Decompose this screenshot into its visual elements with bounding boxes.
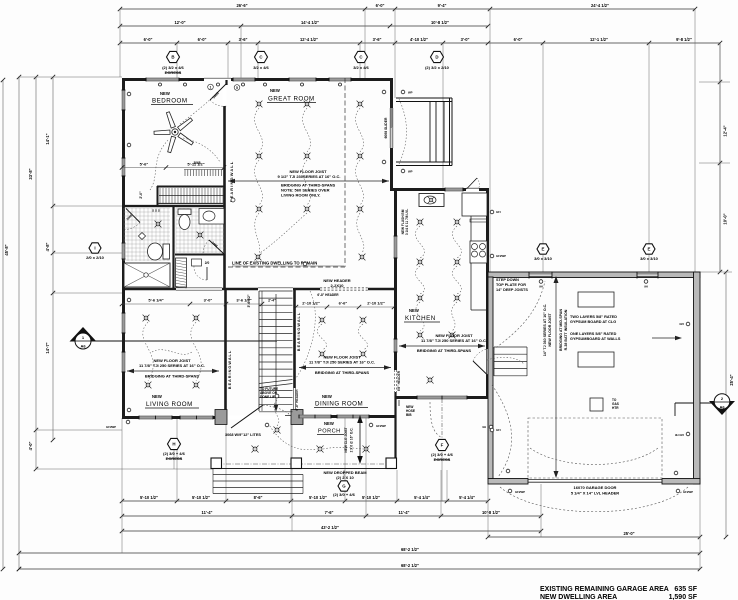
svg-text:2 X 6 @ 16" O.C.: 2 X 6 @ 16" O.C. [350, 427, 354, 452]
svg-text:ONE LAYERS 5/8" RATED: ONE LAYERS 5/8" RATED [570, 332, 617, 336]
svg-text:5'-10 1/2": 5'-10 1/2" [309, 495, 327, 500]
svg-text:6'-0": 6'-0" [376, 3, 385, 8]
svg-text:GFI: GFI [679, 322, 684, 326]
svg-text:GFI/WP: GFI/WP [376, 424, 386, 428]
svg-text:9'-4": 9'-4" [438, 3, 447, 8]
svg-text:DINING ROOM: DINING ROOM [315, 401, 363, 408]
svg-text:6'-8" HEADER: 6'-8" HEADER [295, 389, 299, 411]
svg-text:5'-6": 5'-6" [140, 162, 149, 167]
svg-text:GFI/WP: GFI/WP [683, 490, 693, 494]
svg-text:8'-6": 8'-6" [254, 495, 263, 500]
svg-text:NEW: NEW [270, 88, 280, 93]
svg-text:3/0 x 3/10: 3/0 x 3/10 [640, 256, 659, 261]
svg-text:TOP PLATE FOR: TOP PLATE FOR [496, 283, 526, 287]
svg-text:GFI: GFI [496, 210, 501, 214]
svg-text:2'-0": 2'-0" [139, 191, 143, 199]
svg-text:3'-6": 3'-6" [373, 37, 382, 42]
svg-text:7'-6": 7'-6" [325, 510, 334, 515]
svg-text:10'-0": 10'-0" [723, 213, 728, 224]
svg-text:BIB: BIB [406, 413, 412, 417]
svg-text:10'-8 1/2": 10'-8 1/2" [482, 510, 500, 515]
svg-text:S S S: S S S [152, 209, 160, 213]
svg-text:I: I [94, 246, 95, 251]
svg-text:6'-0": 6'-0" [144, 37, 153, 42]
svg-text:68'-2 1/2": 68'-2 1/2" [401, 547, 419, 552]
svg-text:GFI/WP: GFI/WP [515, 490, 525, 494]
svg-text:14'-7": 14'-7" [45, 342, 50, 353]
svg-text:6'-6": 6'-6" [339, 301, 348, 306]
svg-text:26'-6": 26'-6" [236, 3, 247, 8]
svg-text:5: 5 [236, 86, 238, 90]
svg-text:10'-8 1/2": 10'-8 1/2" [431, 20, 449, 25]
svg-text:14'-4 1/2": 14'-4 1/2" [301, 20, 319, 25]
svg-text:NEW CLG JOIST: NEW CLG JOIST [344, 427, 348, 452]
svg-text:5'-10 1/2": 5'-10 1/2" [362, 495, 380, 500]
svg-text:3068 W/9"12" LITES: 3068 W/9"12" LITES [225, 433, 261, 437]
svg-text:BRIDGING AT THIRD-SPANS: BRIDGING AT THIRD-SPANS [145, 374, 199, 379]
svg-text:B E A R I N G W A L L: B E A R I N G W A L L [297, 312, 301, 351]
svg-text:G: G [342, 484, 346, 489]
svg-text:6'8" HEADER: 6'8" HEADER [397, 370, 401, 391]
svg-text:12'-0": 12'-0" [174, 20, 185, 25]
svg-text:LIVING ROOM: LIVING ROOM [146, 401, 193, 408]
svg-text:25'-0": 25'-0" [623, 531, 634, 536]
svg-text:WP: WP [408, 170, 413, 174]
svg-text:BRIDGING AT MID-SPAN: BRIDGING AT MID-SPAN [559, 309, 563, 351]
svg-text:EXISTING REMAINING GARAGE AREA: EXISTING REMAINING GARAGE AREA [540, 586, 669, 593]
svg-text:D: D [435, 55, 438, 60]
svg-text:33'-8": 33'-8" [28, 168, 33, 179]
svg-text:NEW FLOOR JOIST: NEW FLOOR JOIST [548, 313, 552, 347]
svg-text:3/2 x 4/6: 3/2 x 4/6 [253, 65, 269, 70]
svg-text:H: H [172, 442, 175, 447]
svg-text:NEW: NEW [409, 308, 419, 313]
svg-text:2'-10 1/2": 2'-10 1/2" [367, 301, 385, 306]
svg-text:3/2 x 4/6: 3/2 x 4/6 [353, 65, 369, 70]
svg-text:3'-6": 3'-6" [239, 37, 248, 42]
svg-text:NEW: NEW [152, 394, 162, 399]
svg-text:4'-8": 4'-8" [45, 243, 50, 252]
svg-text:PORCH: PORCH [318, 429, 341, 435]
svg-text:B: B [171, 55, 174, 60]
svg-text:GYPSUMBOARD AT WALLS: GYPSUMBOARD AT WALLS [570, 337, 621, 341]
svg-text:635 SF: 635 SF [674, 586, 697, 593]
svg-text:9H: 9H [644, 285, 648, 289]
svg-text:9'-8 1/2": 9'-8 1/2" [676, 37, 692, 42]
svg-text:WP: WP [408, 91, 413, 95]
svg-text:9 1/2" TJI 230SERIES AT 16" O.: 9 1/2" TJI 230SERIES AT 16" O.C. [278, 174, 341, 179]
svg-text:(2) 3/2 x 2/10: (2) 3/2 x 2/10 [425, 65, 450, 70]
svg-text:GREAT ROOM: GREAT ROOM [268, 96, 315, 103]
svg-text:3'-0": 3'-0" [461, 37, 470, 42]
svg-text:KITCHEN: KITCHEN [405, 315, 436, 322]
svg-text:B E A R I N G W A L L: B E A R I N G W A L L [228, 350, 232, 389]
svg-text:6'-0": 6'-0" [514, 37, 523, 42]
svg-text:4'-10 1/2": 4'-10 1/2" [410, 37, 428, 42]
svg-text:HTR: HTR [612, 406, 619, 410]
svg-text:NEW: NEW [160, 91, 170, 96]
svg-text:3'-6 1/2": 3'-6 1/2" [236, 298, 251, 303]
svg-text:2'-10 1/2": 2'-10 1/2" [302, 301, 320, 306]
svg-text:9H: 9H [539, 285, 543, 289]
svg-text:68'-2 1/2": 68'-2 1/2" [401, 563, 419, 568]
svg-text:BEDROOM: BEDROOM [152, 98, 187, 105]
svg-text:11 7/8" TJI 250 SERIES AT 16": 11 7/8" TJI 250 SERIES AT 16" O.C. [139, 363, 205, 368]
svg-text:24'-4 1/2": 24'-4 1/2" [591, 3, 609, 8]
svg-text:14" TJ 360 SERIES AT 16" O.C.: 14" TJ 360 SERIES AT 16" O.C. [543, 304, 547, 357]
svg-text:(2) 3/0 + 4/6: (2) 3/0 + 4/6 [333, 492, 355, 497]
svg-text:14'-1": 14'-1" [45, 133, 50, 144]
svg-text:6'-0": 6'-0" [198, 37, 207, 42]
svg-text:3/0 x 3/10: 3/0 x 3/10 [534, 256, 553, 261]
svg-text:45'-8": 45'-8" [4, 244, 9, 255]
svg-text:4'-0": 4'-0" [28, 442, 33, 451]
svg-text:5'-4 1/4": 5'-4 1/4" [414, 495, 430, 500]
svg-text:A6: A6 [719, 405, 725, 410]
svg-text:2'-4": 2'-4" [268, 299, 276, 303]
svg-text:STEP DOWN: STEP DOWN [496, 278, 519, 282]
svg-text:5 1/4" X 14" LVL HEADER: 5 1/4" X 14" LVL HEADER [571, 491, 619, 496]
svg-text:11'-4": 11'-4" [399, 510, 410, 515]
svg-text:GFI: GFI [496, 428, 501, 432]
svg-text:NEW DWELLING AREA: NEW DWELLING AREA [540, 594, 617, 600]
svg-text:3068: 3068 [193, 161, 200, 165]
svg-text:2/0 x 2/10: 2/0 x 2/10 [86, 255, 105, 260]
svg-text:LIVING ROOM ONLY.: LIVING ROOM ONLY. [281, 193, 320, 198]
svg-text:E: E [648, 247, 651, 252]
svg-text:A6: A6 [80, 344, 86, 349]
svg-text:GYPSUM BOARD AT CLG: GYPSUM BOARD AT CLG [570, 320, 616, 324]
svg-text:3 1/4 X 11 7/8 LVL: 3 1/4 X 11 7/8 LVL [405, 209, 409, 235]
svg-text:2-2X10: 2-2X10 [331, 283, 345, 288]
svg-text:BRIDGING AT THIRD-SPANS: BRIDGING AT THIRD-SPANS [315, 370, 369, 375]
svg-text:NEW: NEW [322, 394, 332, 399]
svg-text:E: E [542, 247, 545, 252]
svg-text:F: F [441, 443, 444, 448]
svg-text:5'-4 1/4": 5'-4 1/4" [459, 495, 475, 500]
svg-text:14" DEEP JOISTS: 14" DEEP JOISTS [496, 288, 528, 292]
svg-text:9H GFI: 9H GFI [675, 433, 684, 437]
svg-text:43'-2 1/2": 43'-2 1/2" [321, 525, 339, 530]
svg-text:DONE LIFT: DONE LIFT [260, 395, 277, 399]
svg-text:2/0: 2/0 [205, 261, 210, 265]
svg-text:9H: 9H [482, 425, 486, 429]
svg-text:6'-8" HEADER: 6'-8" HEADER [317, 293, 339, 297]
svg-text:1,590 SF: 1,590 SF [669, 594, 698, 600]
svg-text:NEW: NEW [324, 421, 334, 426]
svg-text:5'-10 1/2": 5'-10 1/2" [192, 495, 210, 500]
svg-text:BRIDGING AT THIRD-SPANS: BRIDGING AT THIRD-SPANS [417, 348, 471, 353]
svg-text:(2) 2 X 10: (2) 2 X 10 [336, 475, 354, 480]
svg-text:R-38 BATT INSULATION: R-38 BATT INSULATION [564, 309, 568, 350]
svg-text:5'-6 1/4": 5'-6 1/4" [148, 298, 163, 303]
svg-text:11 7/8" TJI 250 SERIES AT 16": 11 7/8" TJI 250 SERIES AT 16" O.C. [421, 338, 487, 343]
svg-text:12'-4 1/2": 12'-4 1/2" [300, 37, 318, 42]
svg-text:12'-4": 12'-4" [723, 125, 728, 136]
svg-text:3'-0": 3'-0" [204, 298, 213, 303]
svg-text:GFI/WP: GFI/WP [496, 254, 506, 258]
svg-text:25'-4": 25'-4" [729, 374, 734, 385]
svg-text:5'-10 1/2": 5'-10 1/2" [140, 495, 158, 500]
svg-text:11 7/8" TJI 250 SERIES AT 16": 11 7/8" TJI 250 SERIES AT 16" O.C. [309, 360, 375, 365]
svg-text:11'-4": 11'-4" [202, 510, 213, 515]
svg-text:GFI/WP: GFI/WP [106, 425, 116, 429]
svg-text:12'-1 1/2": 12'-1 1/2" [590, 37, 608, 42]
svg-text:TWO LAYERS 5/8" RATED: TWO LAYERS 5/8" RATED [570, 315, 617, 319]
svg-text:6068 SLIDER: 6068 SLIDER [384, 117, 388, 138]
svg-text:16070 GARAGE DOOR: 16070 GARAGE DOOR [574, 485, 617, 490]
svg-text:B E A R I N G W A L L: B E A R I N G W A L L [229, 161, 234, 202]
svg-text:1: 1 [210, 86, 212, 90]
